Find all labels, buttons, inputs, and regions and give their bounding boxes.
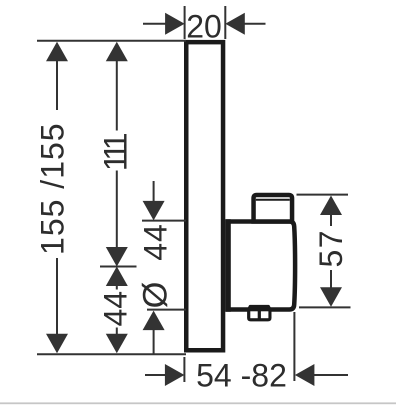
dim 155/155 up arrow	[46, 42, 68, 62]
bottom extension line (left of plate)	[37, 353, 186, 355]
svg-text:155 /155: 155 /155	[35, 122, 71, 255]
svg-text:44: 44	[98, 291, 134, 327]
dim 54-82 left extension line	[183, 357, 185, 382]
dim 111 lower stem	[116, 171, 118, 250]
select button on top of body	[254, 195, 292, 222]
dim 54-82 left dim line	[145, 374, 168, 376]
dim 155/155 lower stem	[56, 258, 58, 336]
dim 44 lower stem	[116, 328, 118, 336]
dim 20 right extension line	[224, 6, 226, 39]
svg-text:54 -82: 54 -82	[196, 357, 287, 393]
escutcheon plate (side view)	[186, 42, 223, 350]
dim 20 right dim line	[244, 23, 266, 25]
dia44 top leader	[153, 181, 155, 203]
body left edge against plate	[225, 219, 231, 311]
svg-text:111: 111	[98, 133, 134, 171]
dim 20 right arrow	[225, 13, 245, 35]
center tick at valve axis	[100, 266, 137, 268]
button seam line	[256, 199, 290, 201]
dim 57 bottom extension line	[299, 306, 351, 308]
dia44 bottom extension line	[147, 309, 186, 311]
dia44 down arrow	[143, 201, 165, 221]
clip at bottom of body	[247, 305, 271, 322]
dia44 bottom leader	[153, 329, 155, 354]
dim 44 down arrow	[106, 334, 128, 354]
dim 54-82 right extension line	[293, 312, 295, 381]
dim 20 left arrow	[165, 13, 185, 35]
dim 155/155 down arrow	[46, 334, 68, 354]
svg-text:20: 20	[186, 9, 222, 45]
top extension line (left of plate)	[37, 40, 186, 42]
dia44 up arrow	[143, 311, 165, 331]
dim 57 upper stem	[330, 214, 332, 226]
clip window left	[250, 311, 257, 318]
dim 111 up arrow	[106, 42, 128, 62]
valve body (cartridge housing)	[228, 222, 295, 310]
dim 57 top extension line	[297, 194, 349, 196]
svg-text:Ø 44: Ø 44	[136, 223, 174, 308]
clip window right	[261, 311, 269, 318]
dim 44 upper stem	[116, 285, 118, 290]
dim 54-82 right arrow (points right)	[165, 364, 185, 386]
dim 57 down arrow	[320, 287, 342, 307]
dim 57 lower stem	[330, 270, 332, 288]
dim 155/155 upper stem	[56, 60, 58, 110]
dim 54-82 left arrow (points left)	[295, 364, 315, 386]
dim 57 up arrow	[320, 196, 342, 216]
svg-text:57: 57	[313, 229, 349, 268]
dim 54-82 right dim line	[313, 374, 348, 376]
dim 20 left dim line	[143, 23, 167, 25]
dim 111 down arrow	[106, 247, 128, 267]
dim 44 up arrow	[106, 267, 128, 287]
dim 20 left extension line	[184, 6, 186, 39]
page footer rule	[0, 402, 396, 404]
dim 111 upper stem	[116, 60, 118, 131]
dia44 top extension line	[142, 220, 186, 222]
